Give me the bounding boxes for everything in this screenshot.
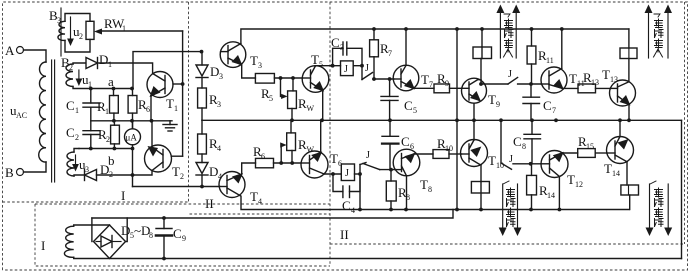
bridge rectifier D5~D8 [94, 225, 126, 259]
u3 arrow [75, 155, 77, 165]
svg-text:8: 8 [428, 185, 432, 194]
node a [89, 87, 93, 91]
svg-text:13: 13 [591, 78, 599, 87]
connector: control cut-out (right) [646, 181, 673, 236]
svg-text:4: 4 [217, 144, 221, 153]
svg-text:C: C [401, 134, 410, 149]
diode D2 [74, 175, 85, 176]
svg-text:C: C [513, 134, 522, 149]
transistor T4 [219, 172, 245, 198]
svg-text:4: 4 [258, 197, 262, 206]
svg-text:7: 7 [552, 106, 556, 115]
svg-text:II: II [205, 196, 214, 211]
svg-text:T: T [488, 153, 496, 168]
winding B3 core line [60, 8, 62, 56]
svg-text:5: 5 [319, 60, 323, 69]
relay coil J (lower) [341, 164, 354, 181]
resistor R14 [527, 175, 537, 195]
transistor T10 [461, 140, 488, 167]
svg-text:T: T [172, 164, 180, 179]
svg-text:T: T [569, 71, 577, 86]
ground symbol [169, 121, 171, 125]
svg-text:10: 10 [496, 161, 504, 170]
svg-text:I: I [121, 188, 125, 203]
svg-text:C: C [66, 98, 75, 113]
vertical tie top rail to mid rail [456, 29, 458, 120]
svg-text:12: 12 [575, 180, 583, 189]
svg-text:10: 10 [445, 144, 453, 153]
svg-text:14: 14 [547, 191, 555, 200]
svg-text:J: J [345, 168, 349, 179]
T6 emitter up to mid rail [320, 120, 322, 153]
T10 emitter to mid rail [473, 120, 475, 140]
svg-text:B: B [5, 165, 14, 180]
svg-text:2: 2 [79, 32, 83, 41]
svg-text:4: 4 [351, 206, 355, 215]
svg-text:T: T [166, 96, 174, 111]
svg-text:T: T [330, 151, 338, 166]
diode D1 [86, 58, 98, 69]
connector: control engage (left) [496, 5, 520, 59]
transistor T9 [462, 78, 487, 103]
diode D4 [201, 154, 203, 163]
svg-text:3: 3 [258, 61, 262, 70]
wire RW1 wiper to bases [100, 30, 183, 32]
block II/III left border [329, 2, 331, 266]
transformer core [51, 60, 53, 182]
svg-text:9: 9 [182, 234, 186, 243]
T7 collector to top rail [405, 29, 407, 65]
svg-text:A: A [5, 43, 15, 58]
svg-text:J: J [508, 69, 512, 80]
RW1 wiper arrow [94, 29, 102, 35]
transistor T8 [393, 149, 420, 176]
svg-text:T: T [604, 161, 612, 176]
resistor R5 [255, 74, 274, 84]
winding bottom wire / DC return line [74, 257, 682, 258]
relay contact J (upper A) [361, 66, 363, 80]
svg-text:D: D [209, 164, 218, 179]
svg-text:C: C [173, 226, 182, 241]
wire A to primary [24, 50, 47, 62]
svg-text:1: 1 [174, 104, 178, 113]
resistor R6 horizontal [256, 158, 274, 167]
wire winding top to D1 [73, 63, 85, 64]
relay coil J (T10 output) [471, 182, 489, 194]
T14 emitter to mid rail [619, 120, 621, 136]
svg-text:W: W [307, 104, 315, 113]
vertical tie mid rail to bottom rail [456, 120, 458, 209]
terminal A [17, 47, 24, 54]
T2 collector up to ground rail [151, 121, 153, 147]
svg-text:9: 9 [496, 100, 500, 109]
T6 collector wire to relay J lower [324, 173, 341, 175]
wire R6 top to T3 base rail [133, 52, 202, 89]
svg-text:D: D [121, 223, 130, 238]
svg-text:D: D [99, 52, 108, 67]
relay contact J (cell B') vertical lead from mid rail [500, 120, 502, 163]
supply winding [64, 226, 73, 257]
T5 collector wire to relay J [315, 65, 332, 67]
mid supply rail [202, 119, 682, 121]
u2 arrow [70, 17, 72, 40]
svg-text:8: 8 [149, 231, 153, 240]
svg-text:I: I [41, 238, 45, 253]
T11 collector to top rail [561, 29, 563, 69]
svg-text:J: J [366, 150, 370, 161]
rectifier box I dashed border [35, 214, 330, 266]
svg-text:2: 2 [106, 135, 110, 144]
svg-text:J: J [365, 63, 369, 74]
terminal B [17, 169, 24, 176]
T8 collector to bottom rail [406, 176, 408, 210]
svg-text:AC: AC [16, 111, 27, 120]
T5 emitter to mid rail [322, 91, 324, 121]
wire D1 to T1 collector [98, 63, 153, 73]
transistor T6 [301, 151, 328, 178]
wire T9 collector node to contact B [479, 82, 483, 86]
ground rail [91, 120, 172, 122]
T3 collector to top rail [241, 29, 629, 44]
T4 collector to bottom rail [240, 196, 629, 210]
resistor R13 [562, 87, 578, 89]
wire detector to T4 base (lower path) [133, 186, 220, 188]
svg-text:2: 2 [75, 133, 79, 142]
resistor R15 [562, 152, 577, 154]
connector: control cut-out (left) [499, 181, 522, 236]
transistor T11 [541, 67, 567, 93]
svg-text:5: 5 [269, 94, 273, 103]
svg-text:T: T [250, 189, 258, 204]
resistor R7 [370, 40, 379, 57]
resistor R6 (collector resistor) [128, 96, 137, 114]
svg-text:8: 8 [522, 142, 526, 151]
block I right border [188, 2, 190, 202]
relay coil J (T14 output) [621, 185, 639, 195]
relay coil J (T13 output) [620, 48, 637, 59]
potentiometer RW1 [86, 21, 94, 39]
svg-text:J: J [344, 64, 348, 75]
svg-text:9: 9 [445, 79, 449, 88]
svg-text:T: T [602, 67, 610, 82]
svg-text:T: T [250, 53, 258, 68]
svg-text:1: 1 [108, 60, 112, 69]
svg-text:C: C [66, 125, 75, 140]
resistor R11 [527, 46, 536, 64]
transistor T14 [607, 137, 634, 164]
transistor T13 [610, 80, 636, 106]
T2 base wire to RW1 line [171, 155, 182, 157]
potentiometer RW3 [287, 133, 296, 151]
top rail dots [372, 27, 376, 31]
svg-text:14: 14 [612, 169, 620, 178]
resistor R8 [386, 181, 396, 201]
DC + rail [92, 210, 453, 219]
winding B4 [67, 152, 74, 176]
svg-text:15: 15 [586, 142, 594, 151]
relay coil J (upper) [341, 61, 354, 76]
wire winding bottom to node a rail [73, 87, 133, 89]
svg-text:C: C [404, 98, 413, 113]
svg-text:6: 6 [261, 152, 265, 161]
svg-text:6: 6 [146, 105, 150, 114]
svg-text:T: T [488, 92, 496, 107]
svg-text:11: 11 [546, 56, 554, 65]
svg-text:C: C [342, 198, 351, 213]
T1 emitter to ground rail [150, 96, 152, 121]
svg-text:1: 1 [75, 106, 79, 115]
microammeter uA [125, 129, 141, 145]
diode D3 [200, 50, 204, 54]
B3 loop wires [65, 14, 90, 22]
primary winding [39, 62, 46, 162]
svg-text:3: 3 [219, 72, 223, 81]
svg-text:T: T [421, 72, 429, 87]
relay coil J (T9 output) [473, 47, 492, 59]
svg-text:T: T [311, 52, 319, 67]
T4 emitter up to R6 [242, 163, 256, 174]
T3 emitter down to R5 [241, 65, 255, 79]
svg-text:13: 13 [610, 75, 618, 84]
wire D2 to T2 emitter [97, 172, 153, 176]
potentiometer RW2 [288, 91, 297, 109]
winding B2 [66, 64, 73, 87]
bridge + output to rail [126, 218, 128, 242]
block I bottom border [3, 201, 189, 203]
svg-text:~D: ~D [134, 223, 150, 238]
svg-text:C: C [543, 98, 552, 113]
svg-text:5: 5 [413, 106, 417, 115]
svg-text:T: T [567, 172, 575, 187]
T13 emitter to mid rail [628, 105, 630, 121]
block II right box borders [684, 2, 686, 244]
transistor T3 [220, 42, 246, 68]
svg-text:3: 3 [217, 100, 221, 109]
svg-text:2: 2 [180, 172, 184, 181]
connector: control engage (right) [645, 5, 673, 59]
T9 emitter to mid rail [473, 103, 475, 120]
u1 arrow [78, 70, 80, 80]
resistor R3 [198, 88, 207, 108]
resistor R10 [414, 153, 433, 155]
svg-text:μA: μA [126, 133, 138, 143]
resistor R4 [198, 134, 207, 154]
svg-text:II: II [340, 227, 349, 242]
winding top wire to bridge [74, 225, 110, 226]
C4 node down to bottom rail [359, 174, 361, 210]
bottom rail dots [389, 208, 393, 212]
resistor R9 [414, 87, 434, 89]
transistor T1 [147, 72, 173, 98]
svg-text:7: 7 [388, 49, 392, 58]
mid rail drop to DC return [681, 120, 683, 258]
svg-text:a: a [108, 74, 114, 89]
transistor T7 [393, 65, 419, 91]
block II mid box border [190, 213, 331, 215]
transistor T12 [541, 151, 568, 178]
transistor T5 [302, 66, 329, 93]
svg-text:D: D [210, 64, 219, 79]
svg-text:1: 1 [105, 107, 109, 116]
T12 collector to bottom rail [558, 177, 560, 210]
transistor T2 [145, 145, 172, 172]
bottom return rail of detector [79, 149, 133, 187]
svg-text:T: T [420, 177, 428, 192]
wire B to primary [24, 162, 47, 172]
